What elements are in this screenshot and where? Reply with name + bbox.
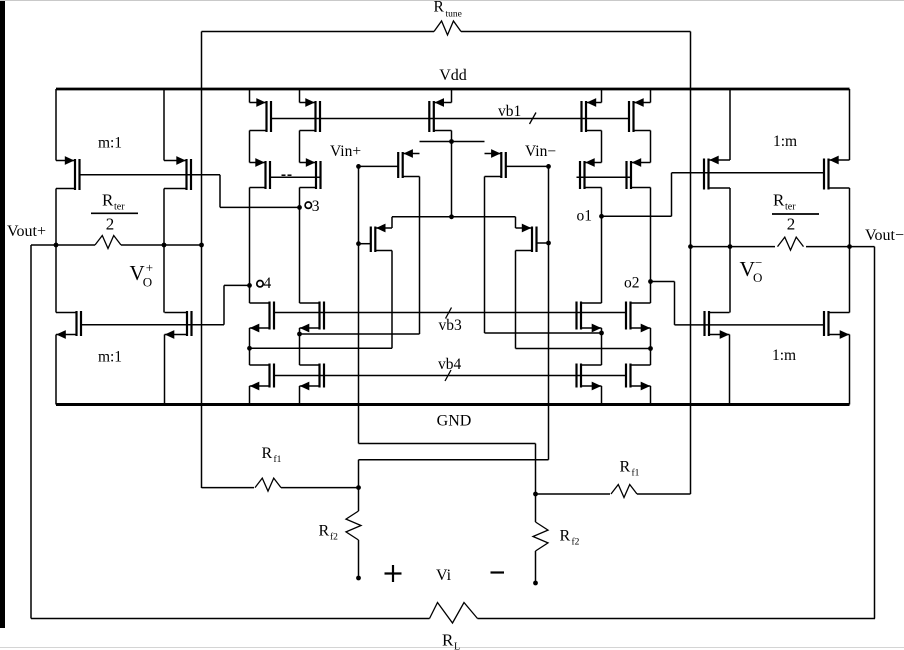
node Vout- dot x730 — [728, 244, 733, 249]
transistor M2 input PMOS Vin- — [485, 149, 506, 178]
label plus sign — [385, 565, 402, 582]
wire Vin- crossover to left — [359, 460, 549, 488]
node dot x650 y348 — [648, 346, 653, 351]
transistor M11 right output PMOS inner — [704, 156, 730, 190]
svg-text:tune: tune — [446, 10, 462, 20]
resistor RL — [31, 603, 875, 624]
wire Rtune left column — [201, 32, 203, 489]
wire right column x849 — [849, 89, 851, 405]
wire o3 to left PMOS gates — [220, 175, 300, 208]
wire column x299 — [299, 89, 301, 405]
transistor M19 row1 PMOS col650 — [629, 98, 651, 132]
label Rter/2 right — [772, 191, 819, 234]
label o4 — [257, 275, 272, 292]
node Vin+ dot — [356, 164, 361, 169]
wire Vin+ gate lead — [359, 165, 399, 167]
transistor M22 row2 PMOS col601 — [580, 158, 602, 189]
svg-text:vb1: vb1 — [498, 103, 521, 120]
Vdd rail — [56, 88, 850, 91]
resistor Rtune — [202, 21, 691, 35]
svg-text:f2: f2 — [330, 532, 338, 543]
transistor M17 row1 PMOS middle — [429, 98, 451, 132]
svg-text:Vout+: Vout+ — [7, 223, 46, 240]
wire left column x56 — [55, 89, 57, 405]
wire right NMOS pair gate line — [675, 324, 825, 326]
transistor M8 left output PMOS inner — [164, 156, 191, 190]
svg-text:R: R — [560, 528, 571, 545]
svg-text:vb4: vb4 — [438, 356, 462, 373]
label Rf2 right — [560, 528, 580, 548]
label Vo- — [740, 255, 763, 285]
resistor Rf1 left — [202, 478, 359, 491]
svg-text:GND: GND — [437, 413, 472, 430]
svg-text:R: R — [434, 0, 445, 16]
transistor M3 center NMOS left — [371, 224, 392, 252]
svg-text:f1: f1 — [274, 454, 282, 465]
resistor Rter/2 right — [691, 237, 875, 250]
transistor M15 row1 PMOS col249 — [250, 98, 272, 132]
transistor M31 row5 NMOS col650 — [626, 364, 651, 391]
svg-text:m:1: m:1 — [98, 349, 122, 366]
svg-text:R: R — [102, 191, 114, 210]
resistor Rf1 right — [536, 485, 691, 498]
node dot x601 y333 — [599, 331, 604, 336]
wire row2 right gate line — [577, 176, 633, 178]
transistor M30 row5 NMOS col601 — [577, 364, 602, 391]
wire right column x730 — [729, 89, 732, 405]
svg-text:R: R — [319, 523, 330, 540]
node Vout+ dot x56 — [54, 243, 59, 248]
label minus sign — [491, 571, 505, 573]
svg-text:ter: ter — [785, 202, 796, 213]
node o3 — [297, 205, 302, 210]
node center right gate dot — [546, 241, 551, 246]
wire center-right drain to outer cascode — [516, 348, 651, 350]
wire Vout- outer loop — [874, 247, 876, 619]
transistor M12 right output PMOS outer — [824, 156, 850, 190]
wire column x249 — [249, 89, 251, 405]
svg-text:o2: o2 — [624, 275, 640, 292]
svg-text:f1: f1 — [632, 468, 640, 479]
label Rter/2 left — [91, 191, 138, 234]
wire center right gate lead — [537, 242, 549, 244]
bottom edge faint line — [0, 647, 904, 649]
wire row2 left gate line — [270, 176, 321, 178]
transistor M7 left output PMOS outer — [56, 156, 80, 190]
svg-text:Vdd: Vdd — [439, 67, 467, 84]
tick vb3 slash — [446, 308, 452, 319]
wire M1 drain to left cascode — [300, 333, 420, 335]
node Vout+ dot x201 — [199, 243, 204, 248]
wire column x650 — [650, 89, 652, 405]
svg-text:1:m: 1:m — [773, 133, 797, 150]
svg-text:Vin+: Vin+ — [330, 143, 361, 160]
svg-text:R: R — [773, 191, 785, 210]
resistor Rter/2 left — [31, 236, 202, 249]
svg-text:2: 2 — [787, 215, 796, 234]
node Vi- terminal dot — [533, 581, 538, 586]
svg-text:1:m: 1:m — [772, 347, 796, 364]
svg-text:ter: ter — [114, 202, 125, 213]
transistor M4 center NMOS right — [516, 224, 537, 252]
resistor Rf2 right — [533, 494, 548, 583]
transistor M21 row2 PMOS col299 — [300, 158, 321, 189]
wire left column x164 — [163, 89, 166, 405]
node Vi+ terminal dot — [356, 576, 361, 581]
svg-text:O: O — [753, 270, 762, 285]
wire vb1 gate line — [271, 118, 629, 120]
node o2 — [648, 279, 653, 284]
node Vout- dot x690 — [688, 244, 693, 249]
svg-text:+: + — [146, 260, 153, 275]
wire center right drain column — [515, 251, 517, 349]
node Vout- dot x849 — [847, 244, 852, 249]
svg-text:2: 2 — [106, 215, 115, 234]
wire Vin+ column — [358, 166, 360, 443]
svg-text:R: R — [262, 445, 273, 462]
label Vo+ — [130, 260, 154, 290]
wire Vin- gate lead — [506, 165, 549, 167]
wire left PMOS pair gate line — [80, 174, 221, 176]
transistor M10 left output NMOS inner — [165, 311, 192, 339]
wire column x601 — [601, 89, 603, 405]
label RL — [442, 631, 460, 650]
svg-text:−: − — [755, 255, 762, 270]
wire o1 to right PMOS gates — [602, 173, 672, 217]
transistor M29 row5 NMOS col299 — [300, 364, 325, 391]
label o3 — [305, 198, 320, 215]
wire center pair source line — [392, 216, 516, 218]
tick vb4 slash — [445, 370, 451, 381]
wire Rtune right column — [690, 32, 692, 495]
wire tail column x451 — [451, 89, 453, 217]
transistor M14 right output NMOS outer — [824, 311, 850, 339]
wire center right source riser — [515, 217, 517, 228]
tick vb1 slash — [530, 113, 537, 125]
transistor M24 row4 NMOS col249 — [250, 302, 275, 333]
wire M1 drain column — [419, 177, 421, 335]
wire o4 to left NMOS gates — [224, 285, 250, 324]
transistor M9 left output NMOS outer — [56, 311, 81, 339]
wire M2 drain column — [484, 177, 486, 334]
node center pair dot — [449, 214, 454, 219]
wire input pair tail — [420, 141, 485, 143]
node dot x299 y334 — [297, 332, 302, 337]
node center left gate dot — [356, 241, 361, 246]
transistor M28 row5 NMOS col249 — [250, 364, 275, 391]
node o1 — [599, 214, 604, 219]
svg-text:m:1: m:1 — [98, 135, 122, 152]
resistor Rf2 left — [346, 488, 361, 578]
svg-text:Vout−: Vout− — [865, 227, 904, 244]
wire vb4 gate line — [274, 375, 626, 377]
wire left NMOS pair gate line — [81, 324, 224, 326]
wire Vin- column — [548, 166, 550, 459]
wire center left gate lead — [359, 243, 372, 245]
svg-text:vb3: vb3 — [439, 317, 463, 334]
tick row2 left gate dashes — [282, 174, 292, 176]
wire o2 to right NMOS gates — [651, 282, 675, 325]
transistor M20 row2 PMOS col249 — [250, 158, 271, 189]
label Rf1 right — [620, 459, 640, 479]
svg-text:R: R — [442, 631, 454, 650]
wire Vout+ outer loop — [30, 245, 32, 619]
transistor M13 right output NMOS inner — [705, 311, 730, 339]
wire vb3 gate line — [274, 312, 626, 314]
node Vout+ dot x164 — [162, 243, 167, 248]
svg-text:R: R — [620, 459, 631, 476]
transistor M1 input PMOS Vin+ — [398, 149, 419, 178]
transistor M23 row2 PMOS col650 — [627, 158, 651, 189]
svg-text:L: L — [454, 642, 460, 650]
svg-text:f2: f2 — [572, 537, 580, 548]
wire Vin+ crossover to right — [359, 444, 536, 495]
node o4 — [247, 283, 252, 288]
wire right PMOS pair gate line — [672, 172, 825, 174]
svg-text:o1: o1 — [577, 208, 593, 225]
wire center-left drain to outer cascode — [250, 347, 393, 349]
node Vin- dot — [546, 164, 551, 169]
node dot x249 y348 — [247, 346, 252, 351]
wire center left source riser — [391, 217, 393, 228]
transistor M16 row1 PMOS col299 — [300, 98, 321, 132]
transistor M27 row4 NMOS col650 — [626, 302, 651, 333]
left page border bar — [0, 0, 5, 628]
label Rf2 left — [319, 523, 339, 543]
node Rf1 left dot — [356, 485, 361, 490]
transistor M18 row1 PMOS col601 — [582, 98, 602, 132]
top edge faint line — [0, 0, 904, 2]
transistor M25 row4 NMOS col299 — [300, 302, 325, 333]
wire M2 drain to right cascode — [485, 332, 602, 334]
svg-text:O: O — [143, 275, 152, 290]
node tail dot — [449, 139, 454, 144]
svg-text:3: 3 — [312, 198, 320, 215]
label Rf1 left — [262, 445, 282, 465]
ground rail GND — [56, 403, 850, 406]
svg-text:Vin−: Vin− — [525, 143, 556, 160]
wire center left drain column — [391, 251, 393, 349]
node Rf1 right dot — [533, 492, 538, 497]
label Rtune — [434, 0, 462, 20]
transistor M26 row4 NMOS col601 — [577, 302, 602, 333]
svg-text:Vi: Vi — [436, 567, 452, 584]
svg-text:4: 4 — [264, 275, 272, 292]
